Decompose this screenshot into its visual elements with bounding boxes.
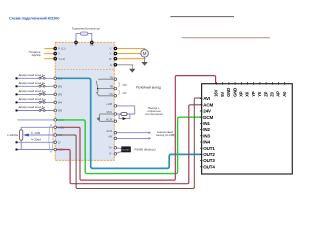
wire motor U — [114, 48, 145, 50]
wire cyan stub 24V — [200, 110, 203, 112]
relay arm — [96, 81, 98, 89]
svg-text:Y0: Y0 — [257, 91, 262, 97]
svg-text:COM: COM — [58, 118, 64, 122]
svg-text:+10В: +10В — [58, 125, 64, 129]
wire COM left — [17, 119, 54, 121]
svg-text:A0: A0 — [282, 91, 287, 97]
transistor open collector — [100, 113, 115, 115]
terminal MI5 — [54, 109, 57, 112]
terminal AM — [114, 137, 117, 140]
relay contact TC — [97, 89, 115, 96]
svg-text:16V: 16V — [214, 89, 219, 96]
load box — [121, 113, 127, 116]
svg-text:TB: TB — [109, 85, 113, 89]
terminal MI4 — [54, 101, 57, 104]
svg-text:TA: TA — [110, 75, 114, 79]
wire pot bottom — [20, 140, 22, 149]
svg-text:Тормозной резистор: Тормозной резистор — [72, 26, 101, 30]
wire D+ — [114, 147, 121, 150]
open collector loop — [114, 106, 134, 114]
terminal TB — [114, 87, 117, 90]
relay contact TA — [98, 78, 114, 80]
terminal E — [114, 63, 118, 67]
svg-text:ZP: ZP — [263, 91, 268, 96]
terminal +10V right — [114, 105, 117, 108]
motor M — [141, 50, 149, 58]
svg-text:T (L2): T (L2) — [58, 57, 65, 61]
svg-text:S: S — [58, 52, 60, 56]
svg-text:MI5: MI5 — [58, 109, 63, 113]
svg-text:AVI: AVI — [58, 133, 62, 137]
svg-text:D+: D+ — [109, 146, 113, 150]
svg-text:RS485: RS485 — [123, 149, 130, 151]
shield ellipse — [49, 125, 53, 153]
wire power T — [44, 58, 55, 60]
controller block — [202, 84, 293, 174]
wire blue MI1 to OUT2 — [55, 78, 201, 168]
svg-text:MI3: MI3 — [58, 93, 63, 97]
svg-text:Релейный выход: Релейный выход — [136, 86, 161, 90]
terminal V — [114, 52, 118, 56]
terminal TC — [114, 95, 117, 98]
wiper arrow — [23, 134, 29, 137]
svg-text:1-10кОм: 1-10кОм — [7, 133, 18, 137]
wire power R — [44, 48, 55, 50]
svg-text:ACM: ACM — [203, 102, 213, 107]
svg-text:XP: XP — [239, 91, 244, 97]
relay pivot — [97, 88, 99, 90]
diode bypass — [119, 114, 130, 119]
svg-text:OUT4: OUT4 — [203, 164, 215, 169]
terminal S — [53, 52, 57, 56]
svg-text:U: U — [110, 47, 112, 51]
terminal T — [53, 57, 57, 61]
stray wire upper — [170, 16, 234, 18]
terminal W — [114, 57, 118, 61]
svg-text:AP: AP — [276, 91, 281, 97]
svg-text:MI1: MI1 — [58, 76, 63, 80]
svg-text:NC: NC — [123, 91, 127, 95]
svg-text:ACM: ACM — [106, 129, 112, 133]
svg-text:выход (0~10В): выход (0~10В) — [156, 133, 175, 137]
wire ACM left — [16, 149, 18, 151]
wire power S — [44, 53, 55, 55]
svg-text:OUT3: OUT3 — [203, 158, 215, 163]
RS485 box — [121, 146, 131, 152]
svg-text:MCM: MCM — [106, 117, 112, 121]
terminal P — [74, 41, 78, 45]
svg-text:ACM: ACM — [58, 148, 64, 152]
wire AVI wiper — [29, 134, 54, 136]
stray wire lower — [182, 37, 270, 39]
controller left labels — [203, 96, 215, 169]
svg-text:4~20мА: 4~20мА — [31, 138, 41, 142]
svg-text:V: V — [110, 52, 112, 56]
svg-text:P: P — [75, 43, 77, 47]
terminal +10V — [54, 126, 57, 129]
terminal D- — [114, 153, 117, 156]
svg-text:коллектором: коллектором — [145, 112, 162, 116]
terminal PB — [90, 41, 94, 45]
svg-text:IN4: IN4 — [203, 140, 210, 145]
terminal MCM — [114, 120, 117, 123]
svg-text:Дискретный вход 4: Дискретный вход 4 — [19, 97, 44, 101]
terminal COM — [54, 119, 57, 122]
svg-text:CI: CI — [58, 140, 61, 144]
svg-text:GND: GND — [226, 88, 231, 97]
svg-text:MO1: MO1 — [106, 110, 112, 114]
wire E ground — [114, 65, 132, 69]
svg-text:MI4: MI4 — [58, 101, 63, 105]
svg-text:Дискретный вход 5: Дискретный вход 5 — [19, 105, 44, 109]
svg-text:Дискретный вход 1: Дискретный вход 1 — [19, 73, 44, 77]
svg-text:AM: AM — [108, 135, 112, 139]
terminal U — [114, 47, 118, 51]
wire crimson +10V to 16V — [55, 76, 215, 181]
terminal AVI — [54, 134, 57, 137]
terminal MO1 — [114, 113, 117, 116]
svg-text:OUT1: OUT1 — [203, 146, 215, 151]
svg-text:YP: YP — [251, 91, 256, 97]
svg-text:R (L1): R (L1) — [58, 47, 65, 51]
ground E — [129, 69, 135, 73]
svg-text:RS485 (Modbus): RS485 (Modbus) — [135, 148, 156, 152]
wire crimson ACM to ACM — [55, 105, 201, 184]
svg-text:E: E — [110, 63, 112, 67]
svg-text:D-: D- — [109, 152, 112, 156]
svg-text:Дискретный вход 2: Дискретный вход 2 — [19, 81, 44, 85]
svg-text:Z0: Z0 — [270, 91, 275, 96]
svg-text:24V: 24V — [203, 109, 211, 114]
analog out ACM arrow — [114, 132, 148, 134]
svg-text:}: } — [118, 90, 120, 96]
svg-text:IN1: IN1 — [203, 121, 210, 126]
svg-text:Схема подключений KD200: Схема подключений KD200 — [9, 16, 59, 21]
terminal TA — [114, 78, 117, 81]
svg-text:5V: 5V — [220, 92, 225, 97]
svg-text:DCM: DCM — [203, 115, 213, 120]
analog out AM arrow — [114, 137, 148, 139]
svg-text:MI2: MI2 — [58, 84, 63, 88]
VFD section divider — [55, 69, 114, 71]
svg-text:M: M — [143, 51, 147, 56]
svg-text:}: } — [118, 82, 120, 88]
diode arrow — [123, 117, 127, 120]
wire D- — [114, 152, 121, 154]
wire motor V — [114, 53, 141, 55]
svg-text:OUT2: OUT2 — [203, 152, 215, 157]
terminal ACM right — [114, 131, 117, 134]
svg-text:NO: NO — [123, 83, 128, 87]
svg-text:TC: TC — [109, 92, 113, 96]
controller top labels — [214, 88, 287, 97]
terminal D+ — [114, 147, 117, 150]
wire pot top to +10V — [21, 127, 54, 130]
svg-text:X0: X0 — [245, 91, 250, 97]
wire brown AVI riser — [55, 98, 201, 189]
wire motor ground lead — [144, 57, 146, 62]
svg-text:+10В: +10В — [106, 102, 112, 106]
controller left ticks — [200, 99, 203, 167]
wire CI input — [16, 141, 18, 143]
terminal R — [53, 47, 57, 51]
terminal MI2 — [54, 85, 57, 88]
wire green COM to DCM — [55, 117, 201, 173]
wire braking resistor — [76, 34, 80, 43]
terminal ACM left — [54, 148, 57, 151]
controller top ticks — [217, 82, 285, 85]
relay contact TB — [98, 88, 115, 90]
svg-text:AVI: AVI — [203, 96, 210, 101]
svg-text:IN2: IN2 — [203, 127, 210, 132]
svg-text:GND: GND — [232, 88, 237, 97]
VFD block body — [55, 42, 114, 160]
svg-text:PB: PB — [90, 43, 94, 47]
svg-text:Дискретный вход 3: Дискретный вход 3 — [19, 89, 44, 93]
ground motor — [141, 62, 147, 66]
terminal MI1 — [54, 77, 57, 80]
svg-text:IN3: IN3 — [203, 133, 210, 138]
svg-text:1ф/3ф: 1ф/3ф — [31, 53, 41, 57]
terminal CI — [54, 141, 57, 144]
terminal MI3 — [54, 93, 57, 96]
wire motor W — [114, 58, 145, 60]
resistor braking — [80, 32, 87, 35]
svg-text:0 ~10В: 0 ~10В — [31, 131, 40, 135]
